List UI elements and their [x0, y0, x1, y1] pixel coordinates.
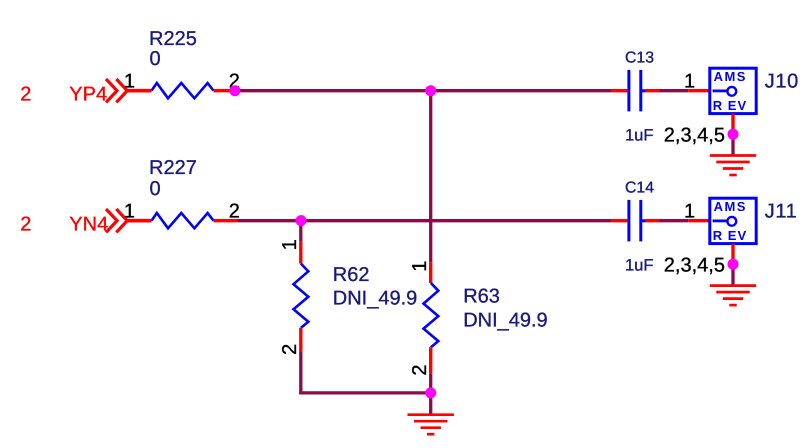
pin wire R63.1 — [429, 262, 432, 283]
ground GND J10 — [710, 156, 756, 176]
wire R63 bottom to ground node — [429, 373, 432, 393]
wire row2 junction down to R62 — [299, 221, 302, 242]
svg-text:2,3,4,5: 2,3,4,5 — [664, 125, 725, 147]
svg-text:2: 2 — [20, 214, 31, 236]
resistor R225 — [152, 83, 214, 98]
svg-text:J11: J11 — [765, 200, 798, 222]
pin wire C14.2 — [645, 219, 659, 222]
pin wire YP4/R225.1 — [127, 89, 151, 93]
svg-text:C14: C14 — [625, 179, 654, 196]
junction dot J10 ground — [728, 129, 739, 140]
wire J10 pin2 to ground — [731, 134, 734, 155]
svg-text:2,3,4,5: 2,3,4,5 — [664, 255, 725, 277]
svg-text:1: 1 — [124, 200, 135, 222]
pin wire R225.2 — [214, 89, 235, 92]
svg-text:R EV: R EV — [713, 98, 747, 113]
svg-text:DNI_49.9: DNI_49.9 — [463, 309, 548, 331]
svg-text:R62: R62 — [333, 264, 370, 286]
svg-text:1: 1 — [684, 70, 695, 92]
svg-text:AMS: AMS — [714, 69, 747, 84]
pin wire C14.1 — [612, 219, 628, 222]
pin wire J11.1 — [688, 219, 710, 222]
svg-text:2: 2 — [229, 200, 240, 222]
capacitor C14 — [627, 200, 645, 242]
pin wire R62.2 — [299, 328, 302, 351]
port YP4 chevrons — [106, 79, 127, 102]
junction dot row1 left — [229, 85, 240, 96]
port YN4 chevrons — [106, 209, 127, 232]
pin wire R63.2 — [429, 347, 432, 373]
svg-text:2: 2 — [20, 84, 31, 106]
pin wire YN4/R227.1 — [127, 219, 151, 223]
pin wire R62.1 — [299, 242, 302, 264]
ground GND mid — [408, 415, 454, 435]
svg-text:C13: C13 — [625, 49, 654, 66]
wire R62 bottom to ground node — [301, 351, 431, 393]
svg-text:AMS: AMS — [714, 199, 747, 214]
wire C14 to J11 — [660, 219, 689, 222]
svg-text:1: 1 — [279, 239, 301, 250]
svg-text:1uF: 1uF — [625, 126, 653, 144]
svg-text:YN4: YN4 — [69, 214, 108, 236]
svg-text:DNI_49.9: DNI_49.9 — [333, 287, 418, 309]
svg-text:2: 2 — [279, 344, 301, 355]
svg-text:1uF: 1uF — [625, 256, 653, 274]
pin wire J10.1 — [688, 89, 710, 92]
wire ground node to ground symbol — [429, 393, 432, 415]
svg-text:R EV: R EV — [713, 228, 747, 243]
pin wire C13.2 — [645, 89, 659, 92]
connector J11 — [710, 198, 756, 243]
resistor R62 — [294, 264, 309, 328]
svg-text:0: 0 — [150, 48, 161, 70]
wire row1 net — [235, 89, 612, 92]
capacitor C13 — [627, 70, 645, 112]
svg-text:YP4: YP4 — [69, 84, 107, 106]
pin wire J11.2 — [731, 244, 734, 265]
svg-text:J10: J10 — [765, 70, 799, 92]
svg-text:1: 1 — [684, 200, 695, 222]
pin wire C13.1 — [612, 89, 628, 92]
pin wire J10.2 — [731, 114, 734, 135]
ground GND J11 — [710, 286, 756, 306]
resistor R227 — [152, 213, 214, 228]
wire C13 to J10 — [660, 89, 689, 92]
svg-text:1: 1 — [124, 70, 135, 92]
svg-text:0: 0 — [150, 178, 161, 200]
resistor R63 — [424, 283, 439, 347]
svg-text:R227: R227 — [149, 157, 197, 179]
wire J11 pin2 to ground — [731, 264, 734, 285]
svg-text:1: 1 — [409, 261, 431, 272]
junction dot ground node — [425, 387, 436, 398]
svg-text:R225: R225 — [149, 28, 197, 50]
junction dot J11 ground — [728, 259, 739, 270]
wire row1 junction down to R63 — [429, 91, 432, 263]
junction dot row1 mid — [425, 85, 436, 96]
connector J10 — [710, 68, 756, 113]
pin wire R227.2 — [214, 219, 238, 222]
junction dot row2 — [296, 215, 307, 226]
svg-text:R63: R63 — [463, 285, 500, 307]
svg-text:2: 2 — [409, 364, 431, 375]
wire row2 net — [237, 219, 611, 222]
